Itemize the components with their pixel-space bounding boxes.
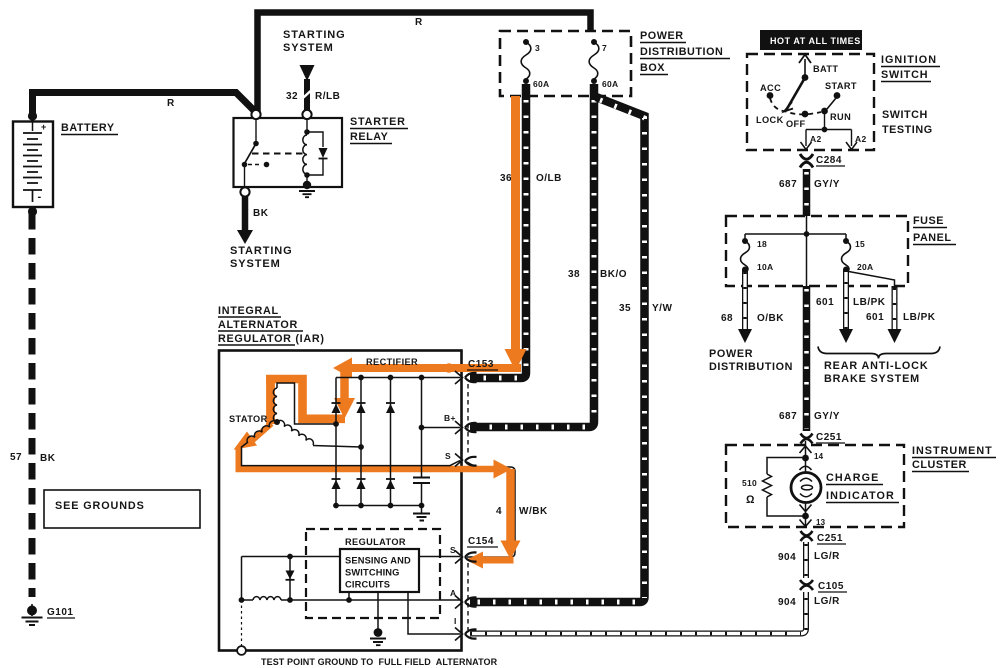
svg-text:REAR ANTI-LOCK: REAR ANTI-LOCK bbox=[824, 360, 928, 372]
svg-text:13: 13 bbox=[816, 518, 826, 527]
rectifier ground bbox=[413, 506, 430, 521]
orange trace: down col1 bbox=[340, 369, 349, 399]
svg-text:POWER: POWER bbox=[709, 348, 753, 360]
label IGNITION SWITCH bbox=[881, 54, 940, 82]
label INTEGRAL ALTERNATOR REGULATOR (IAR) bbox=[218, 305, 325, 345]
brace rear anti-lock bbox=[818, 347, 940, 359]
stator winding W3 (to col2) bbox=[277, 420, 313, 445]
svg-text:38: 38 bbox=[568, 269, 580, 280]
regulator diode D7 bbox=[286, 557, 295, 601]
BATT contact bbox=[802, 74, 809, 81]
S wire from C153 S to C154 S bbox=[467, 462, 515, 557]
relay linkage dashed bbox=[252, 153, 305, 155]
svg-text:C153: C153 bbox=[468, 359, 494, 370]
wire 38 BK/O from fuse 7 to C153 B+ bbox=[470, 84, 594, 427]
svg-text:C251: C251 bbox=[817, 533, 843, 544]
S wire from stator to C153 S bbox=[242, 442, 461, 466]
svg-text:32: 32 bbox=[286, 91, 298, 102]
stator winding W1 (vertical) bbox=[273, 388, 277, 422]
ACC contact bbox=[767, 92, 774, 99]
svg-text:TEST POINT GROUND TO FULL FIE: TEST POINT GROUND TO FULL FIELD ALTERNAT… bbox=[261, 657, 498, 667]
orange arrowhead left into rectifier bbox=[333, 358, 352, 379]
C154 pin A terminal bbox=[455, 596, 477, 609]
svg-text:15: 15 bbox=[855, 239, 865, 249]
svg-text:18: 18 bbox=[757, 239, 767, 249]
diode D6 (lower col3) bbox=[386, 479, 395, 489]
svg-text:Y/W: Y/W bbox=[652, 303, 672, 314]
svg-text:BATTERY: BATTERY bbox=[61, 122, 115, 134]
svg-text:POWER: POWER bbox=[640, 30, 684, 42]
svg-text:LG/R: LG/R bbox=[814, 596, 840, 607]
orange trace: stator winding W1 and W2 bbox=[266, 376, 275, 425]
svg-text:904: 904 bbox=[778, 552, 796, 563]
C153 dashed connector body bbox=[467, 384, 469, 456]
C153 pin B+ terminal bbox=[455, 421, 477, 434]
svg-text:DISTRIBUTION: DISTRIBUTION bbox=[709, 361, 793, 373]
svg-text:INDICATOR: INDICATOR bbox=[826, 490, 895, 502]
fuse panel dashed box bbox=[726, 216, 908, 286]
battery B1 bbox=[13, 111, 53, 216]
orange junction blob bbox=[444, 363, 454, 373]
svg-text:SYSTEM: SYSTEM bbox=[230, 258, 281, 270]
orange arrowhead right on S wire bbox=[494, 460, 512, 479]
rectifier column 1 bbox=[335, 378, 337, 506]
svg-text:10A: 10A bbox=[757, 262, 774, 272]
svg-text:ACC: ACC bbox=[760, 83, 781, 93]
svg-text:HOT AT ALL TIMES: HOT AT ALL TIMES bbox=[770, 36, 861, 46]
orange arrowhead down at C154 bbox=[501, 541, 521, 560]
orange trace: fuse 3 down O/LB bbox=[511, 96, 520, 350]
svg-text:Ω: Ω bbox=[746, 494, 755, 506]
stator winding W2 (to S wire) bbox=[247, 421, 277, 443]
svg-text:BRAKE SYSTEM: BRAKE SYSTEM bbox=[824, 373, 920, 385]
orange arrowhead down at C153 bbox=[505, 349, 527, 371]
svg-text:STARTING: STARTING bbox=[283, 29, 346, 41]
svg-text:LB/PK: LB/PK bbox=[853, 297, 886, 308]
junction dots top rail bbox=[358, 375, 364, 381]
capacitor C (col4) bbox=[413, 478, 430, 484]
svg-text:DISTRIBUTION: DISTRIBUTION bbox=[640, 46, 723, 58]
regulator dashed box bbox=[306, 529, 440, 618]
svg-text:C284: C284 bbox=[816, 155, 842, 166]
svg-text:S: S bbox=[450, 545, 456, 555]
fuse 7 (60A) bbox=[589, 39, 599, 84]
diode D2 (upper col2) bbox=[357, 403, 366, 413]
left sense vertical bbox=[241, 557, 243, 601]
regulator output stub bbox=[348, 592, 350, 600]
sensing and switching circuits box bbox=[340, 549, 419, 592]
HOT AT ALL TIMES banner bbox=[760, 30, 862, 50]
C154 pin I terminal bbox=[455, 628, 477, 641]
relay clamp diode bbox=[307, 132, 328, 175]
S sense wire bbox=[242, 556, 461, 558]
svg-text:TESTING: TESTING bbox=[882, 124, 933, 136]
starter relay K1 bbox=[234, 110, 343, 197]
svg-text:ALTERNATOR: ALTERNATOR bbox=[218, 319, 298, 331]
branch to second LB/PK bbox=[846, 271, 895, 286]
svg-text:REGULATOR (IAR): REGULATOR (IAR) bbox=[218, 333, 325, 345]
svg-text:W/BK: W/BK bbox=[519, 506, 548, 517]
lever pivot chevron bbox=[784, 102, 793, 112]
wire 68 O/BK bbox=[738, 270, 752, 344]
rectifier bottom rail bbox=[336, 505, 422, 507]
svg-text:SYSTEM: SYSTEM bbox=[283, 42, 334, 54]
connector C251 bottom bbox=[801, 531, 813, 541]
label CHARGE INDICATOR bbox=[826, 472, 899, 503]
orange trace: rectifier top rail bbox=[351, 364, 521, 372]
svg-text:CLUSTER: CLUSTER bbox=[912, 459, 967, 471]
svg-text:57: 57 bbox=[10, 452, 22, 463]
svg-text:7: 7 bbox=[602, 43, 607, 53]
svg-text:G101: G101 bbox=[47, 607, 73, 618]
svg-text:IGNITION: IGNITION bbox=[881, 54, 937, 66]
svg-text:60A: 60A bbox=[533, 79, 550, 89]
diode D4 (lower col1) bbox=[332, 479, 341, 489]
svg-text:R/LB: R/LB bbox=[315, 91, 340, 102]
wire 904 LG/R upper bbox=[803, 542, 809, 578]
C154 dashed connector body bbox=[467, 563, 469, 630]
label STARTER RELAY bbox=[350, 116, 408, 144]
svg-text:3: 3 bbox=[535, 43, 540, 53]
svg-text:14: 14 bbox=[814, 452, 824, 461]
orange arrowhead down at diode D1 bbox=[334, 398, 355, 419]
svg-text:601: 601 bbox=[866, 312, 884, 323]
diode D1 (upper col1) bbox=[332, 403, 341, 413]
svg-text:BK: BK bbox=[253, 208, 269, 219]
svg-text:R: R bbox=[167, 98, 175, 109]
svg-text:RUN: RUN bbox=[830, 112, 851, 122]
fuse 15 (20A) bbox=[842, 238, 851, 273]
A2 test bracket bbox=[801, 111, 858, 150]
svg-text:C154: C154 bbox=[468, 536, 494, 547]
SEE GROUNDS note box bbox=[44, 490, 200, 528]
wire 32 R/LB into relay bbox=[304, 79, 310, 110]
junction dot 13 bbox=[802, 513, 809, 520]
svg-text:SWITCH: SWITCH bbox=[881, 69, 928, 81]
svg-text:20A: 20A bbox=[857, 262, 874, 272]
svg-text:601: 601 bbox=[816, 297, 834, 308]
svg-text:RECTIFIER: RECTIFIER bbox=[366, 357, 418, 367]
svg-text:O/BK: O/BK bbox=[757, 313, 784, 324]
svg-text:904: 904 bbox=[778, 597, 796, 608]
svg-text:BK: BK bbox=[40, 453, 56, 464]
svg-text:I: I bbox=[454, 616, 457, 626]
B+ tap to C153 bbox=[419, 425, 425, 431]
I wire from regulator bbox=[408, 592, 460, 634]
svg-text:C105: C105 bbox=[818, 581, 844, 592]
svg-text:LB/PK: LB/PK bbox=[903, 312, 936, 323]
power distribution box bbox=[500, 31, 631, 96]
IAR alternator box bbox=[219, 351, 462, 651]
C153 pin 1 terminal bbox=[455, 371, 477, 384]
switch lever bbox=[786, 79, 805, 111]
svg-text:687: 687 bbox=[779, 179, 797, 190]
svg-text:RELAY: RELAY bbox=[350, 131, 389, 143]
svg-text:68: 68 bbox=[721, 313, 733, 324]
instrument cluster dashed box bbox=[726, 445, 904, 527]
rectifier column 4 bbox=[421, 378, 423, 506]
test point dashed lead bbox=[241, 600, 243, 646]
svg-text:510: 510 bbox=[742, 478, 757, 488]
svg-text:35: 35 bbox=[619, 303, 631, 314]
wire 601 LB/PK second bbox=[888, 286, 902, 343]
RUN contact bbox=[821, 108, 828, 115]
charge indicator lamp bbox=[791, 458, 821, 515]
label INSTRUMENT CLUSTER bbox=[912, 445, 996, 472]
svg-text:S: S bbox=[445, 451, 451, 461]
svg-text:4: 4 bbox=[496, 506, 502, 517]
svg-text:BK/O: BK/O bbox=[600, 269, 627, 280]
relay switch contact bbox=[242, 120, 270, 189]
rectifier column 3 bbox=[390, 378, 392, 506]
rectifier column 2 bbox=[360, 378, 362, 506]
cluster entry pin 14 bbox=[800, 441, 812, 455]
field coil L1 bbox=[253, 597, 281, 600]
label FUSE PANEL bbox=[913, 215, 956, 245]
stator centre junction bbox=[274, 419, 280, 425]
svg-text:SWITCHING: SWITCHING bbox=[345, 568, 400, 578]
svg-text:INSTRUMENT: INSTRUMENT bbox=[912, 445, 993, 457]
label POWER DISTRIBUTION BOX bbox=[640, 30, 730, 75]
svg-text:SWITCH: SWITCH bbox=[882, 109, 928, 121]
connector C105 bbox=[800, 580, 813, 590]
arrow down to starting system bbox=[237, 230, 253, 244]
svg-text:A2: A2 bbox=[810, 134, 821, 144]
test point open circle bbox=[237, 646, 246, 655]
junction dot 14 bbox=[802, 455, 809, 462]
svg-text:START: START bbox=[825, 81, 857, 91]
resistor 510 ohm branch bbox=[763, 458, 806, 517]
A wire (field) bbox=[242, 599, 461, 601]
START branch line bbox=[827, 98, 836, 109]
wire 601 LB/PK first bbox=[839, 270, 853, 344]
svg-text:LOCK: LOCK bbox=[756, 115, 784, 125]
svg-text:GY/Y: GY/Y bbox=[814, 411, 840, 422]
stator link to col2 bbox=[358, 444, 364, 450]
wire 687 GY/Y fuse panel to cluster bbox=[803, 286, 811, 431]
orange trace: S wire down and long run right bbox=[236, 447, 495, 472]
arrow from starting system down bbox=[300, 65, 315, 81]
fuse panel feed-through bbox=[806, 234, 808, 286]
diode D3 (upper col3) bbox=[386, 403, 395, 413]
C153 pin S terminal bbox=[455, 454, 477, 467]
svg-text:OFF: OFF bbox=[786, 119, 806, 129]
orange arrowhead down-left at stator bbox=[234, 432, 258, 450]
svg-text:O/LB: O/LB bbox=[536, 173, 562, 184]
connector C251 top bbox=[801, 434, 813, 444]
svg-text:BOX: BOX bbox=[640, 62, 665, 74]
svg-text:FUSE: FUSE bbox=[913, 215, 944, 227]
wire: battery negative dashed (57 BK) bbox=[29, 213, 36, 597]
relay coil bbox=[303, 120, 310, 178]
stator link to col1 bbox=[333, 421, 339, 427]
svg-text:PANEL: PANEL bbox=[913, 232, 952, 244]
OFF contact bbox=[802, 111, 809, 118]
svg-text:R: R bbox=[415, 17, 423, 28]
wire 687 GY/Y ignition to fuse panel bbox=[803, 169, 811, 216]
fuse panel bus bbox=[745, 216, 846, 240]
wire 36 O/LB from fuse 3 to C153 pin 1 bbox=[470, 84, 526, 378]
svg-text:REGULATOR: REGULATOR bbox=[345, 537, 406, 547]
orange arrowhead left into S pin bbox=[466, 552, 483, 569]
cluster exit pin 13 bbox=[800, 516, 812, 527]
svg-text:36: 36 bbox=[500, 173, 512, 184]
regulator ground bbox=[370, 592, 386, 645]
svg-text:CHARGE: CHARGE bbox=[826, 472, 879, 484]
svg-text:CIRCUITS: CIRCUITS bbox=[345, 580, 390, 590]
svg-text:A2: A2 bbox=[855, 134, 866, 144]
connector C284 bbox=[800, 154, 813, 168]
wire I to instrument cluster (long run) bbox=[470, 592, 806, 634]
wire: top bus R from starter relay to power distribution box bbox=[258, 13, 591, 113]
wire: battery positive to starter relay (R) bbox=[33, 93, 255, 117]
svg-text:+: + bbox=[41, 122, 46, 132]
svg-text:STATOR: STATOR bbox=[229, 414, 268, 424]
svg-text:C251: C251 bbox=[816, 432, 842, 443]
svg-text:SENSING AND: SENSING AND bbox=[345, 556, 411, 566]
svg-text:-: - bbox=[38, 191, 42, 203]
svg-text:60A: 60A bbox=[602, 79, 619, 89]
orange trace: down W/BK to C154 bbox=[506, 469, 515, 541]
START contact bbox=[834, 92, 841, 99]
orange trace: left into C154 S bbox=[482, 557, 514, 564]
svg-text:STARTING: STARTING bbox=[230, 245, 293, 257]
svg-text:INTEGRAL: INTEGRAL bbox=[218, 305, 279, 317]
ignition switch dashed box bbox=[747, 54, 874, 150]
selector dashed arc bbox=[770, 98, 821, 114]
svg-text:B+: B+ bbox=[444, 413, 456, 423]
rectifier top rail bbox=[336, 377, 460, 379]
wire BK from relay down bbox=[242, 196, 249, 231]
ground G101 bbox=[22, 604, 43, 625]
relay ground bbox=[299, 175, 315, 197]
fuse 3 (60A) bbox=[521, 39, 531, 84]
C154 pin S terminal bbox=[455, 551, 477, 564]
svg-text:SEE GROUNDS: SEE GROUNDS bbox=[55, 500, 145, 512]
svg-text:GY/Y: GY/Y bbox=[814, 179, 840, 190]
svg-text:STARTER: STARTER bbox=[350, 116, 406, 128]
fuse 18 (10A) bbox=[741, 238, 750, 273]
svg-text:LG/R: LG/R bbox=[814, 551, 840, 562]
ignition feed arrow to BATT bbox=[799, 55, 811, 78]
svg-text:687: 687 bbox=[779, 411, 797, 422]
svg-text:BATT: BATT bbox=[813, 64, 838, 74]
diode D5 (lower col2) bbox=[357, 479, 366, 489]
wire 35 Y/W from fuse 7 to C154 A bbox=[470, 97, 645, 602]
orange trace: stator link staircase bbox=[266, 379, 345, 419]
